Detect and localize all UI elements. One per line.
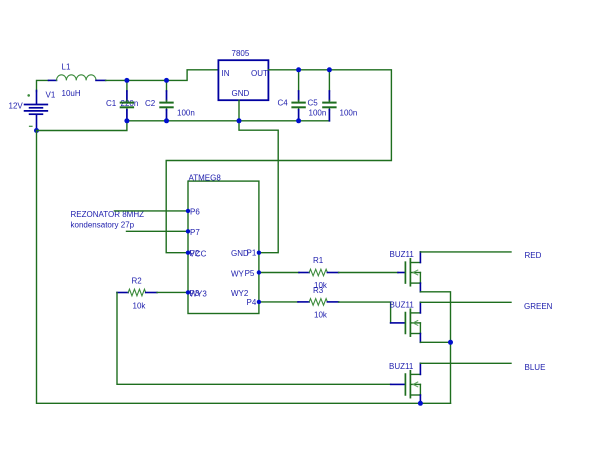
svg-text:10k: 10k — [133, 301, 147, 310]
svg-text:ATMEG8: ATMEG8 — [189, 174, 222, 183]
svg-text:kondensatory 27p: kondensatory 27p — [71, 221, 135, 230]
pin dot WY P5 — [257, 270, 261, 274]
svg-text:100n: 100n — [340, 109, 358, 118]
svg-text:P4: P4 — [247, 298, 257, 307]
pin dot P6 — [186, 209, 190, 213]
svg-text:C2: C2 — [145, 99, 156, 108]
junction dot C1 bottom — [124, 118, 129, 123]
svg-text:L1: L1 — [62, 63, 71, 72]
wire Q1 drain to RED — [420, 251, 511, 253]
pin dot WY2 P4 — [257, 300, 261, 304]
capacitor C4 100n — [278, 70, 327, 121]
svg-text:100n: 100n — [177, 109, 195, 118]
junction dot C1 top — [124, 78, 129, 83]
IC U2 ATMEG8 — [188, 174, 259, 314]
junction dot 7805 GND rail — [237, 118, 242, 123]
wire R2 left down around to BLUE gate — [117, 293, 391, 385]
svg-text:7805: 7805 — [232, 49, 250, 58]
inductor L1 10uH — [49, 63, 106, 99]
wire Q3 drain to BLUE — [420, 362, 511, 364]
transistor Q1 BUZ11 (RED) — [390, 250, 421, 292]
wire P4 to R3 — [259, 301, 298, 303]
junction dot C5 top — [327, 67, 332, 72]
wire R1 to Q1 gate — [339, 272, 398, 274]
resistor R2 10k — [117, 276, 157, 310]
pin dot WY3 P3 — [186, 290, 190, 294]
svg-text:P1: P1 — [247, 249, 257, 258]
wire top rail to C1 C2 and 7805 IN — [106, 70, 219, 81]
svg-text:P7: P7 — [190, 228, 200, 237]
transistor Q3 BUZ11 (BLUE) — [389, 362, 420, 403]
junction dot C2 top — [164, 78, 169, 83]
annotation text — [71, 210, 145, 230]
wire battery minus to ground rail — [37, 121, 127, 131]
capacitor C1 220n — [106, 80, 138, 120]
svg-text:BUZ11: BUZ11 — [390, 301, 415, 310]
junction dot C2 bottom — [164, 118, 169, 123]
svg-text:R2: R2 — [132, 276, 143, 285]
svg-text:BUZ11: BUZ11 — [389, 362, 414, 371]
resistor R1 10k — [299, 256, 339, 290]
svg-text:IN: IN — [222, 69, 230, 78]
svg-text:R3: R3 — [313, 286, 324, 295]
wire Q2 drain to GREEN — [420, 301, 511, 303]
capacitor C5 100n — [308, 70, 358, 121]
wire Q2 source to right rail — [420, 341, 450, 343]
svg-text:GND: GND — [232, 89, 250, 98]
svg-text:10uH: 10uH — [62, 89, 81, 98]
wire R2 to WY3 pin — [157, 291, 188, 293]
ground rail — [127, 120, 330, 122]
svg-text:BLUE: BLUE — [525, 363, 546, 372]
junction dot Q3 source on bottom rail — [418, 401, 423, 406]
svg-text:R1: R1 — [313, 256, 324, 265]
wire P7 — [127, 230, 189, 232]
svg-text:12V: 12V — [9, 102, 24, 111]
svg-text:WY: WY — [231, 270, 245, 279]
transistor Q2 BUZ11 (GREEN) — [390, 301, 421, 343]
wire P5 to R1 — [259, 272, 299, 274]
svg-text:P6: P6 — [190, 208, 200, 217]
battery V1 12V — [9, 80, 56, 130]
svg-text:V1: V1 — [46, 91, 56, 100]
svg-text:VCC: VCC — [190, 250, 207, 259]
wire P6 — [114, 210, 188, 212]
junction dot C4 bottom — [296, 118, 301, 123]
svg-text:C1: C1 — [106, 99, 117, 108]
pin dot GND P1 — [257, 251, 261, 255]
regulator U1 7805 — [218, 49, 268, 100]
svg-text:OUT: OUT — [251, 69, 268, 78]
svg-text:C5: C5 — [308, 99, 319, 108]
pin dot VCC P2 — [186, 251, 190, 255]
svg-text:GREEN: GREEN — [524, 302, 553, 311]
junction dot C4 top — [296, 67, 301, 72]
wire 7805 GND down to ground rail and ATMEG8 GND — [239, 100, 278, 253]
wire left rail and bottom rail — [37, 131, 451, 404]
junction dot battery minus — [34, 128, 39, 133]
wire Q1 source to right rail — [420, 292, 450, 404]
svg-text:100n: 100n — [309, 109, 327, 118]
svg-text:WY3: WY3 — [190, 289, 208, 298]
junction dot source rail — [448, 340, 453, 345]
wire 7805 OUT to C4 C5 and down to +5V line — [166, 70, 391, 253]
svg-text:C4: C4 — [278, 99, 289, 108]
svg-text:RED: RED — [525, 251, 542, 260]
svg-text:10k: 10k — [314, 310, 328, 319]
svg-text:P5: P5 — [245, 269, 255, 278]
resistor R3 10k — [298, 286, 339, 319]
pin dot P7 — [186, 229, 190, 233]
svg-text:BUZ11: BUZ11 — [390, 250, 415, 259]
wire R3 to Q2 gate drop — [339, 302, 391, 323]
svg-text:WY2: WY2 — [231, 289, 249, 298]
capacitor C2 100n — [145, 80, 195, 120]
